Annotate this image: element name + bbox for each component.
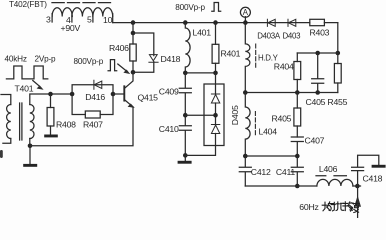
svg-text:Q415: Q415 [138, 92, 159, 102]
svg-text:C407: C407 [305, 136, 325, 146]
T402 pin 5 [92, 14, 94, 23]
wire: loop to Q415 base [113, 93, 124, 95]
resistor R404 [296, 53, 298, 62]
svg-text:R407: R407 [83, 119, 103, 129]
node A (circled) [240, 7, 250, 17]
svg-text:+90V: +90V [61, 23, 81, 33]
capacitor C409 [179, 73, 191, 115]
resistor R403 [310, 19, 325, 25]
svg-text:R403: R403 [310, 28, 330, 38]
resistor R401 [215, 23, 217, 45]
node: junction on rail A above R406 [131, 20, 136, 25]
svg-text:10: 10 [103, 15, 113, 25]
svg-text:R406: R406 [109, 43, 129, 53]
wire: T401 secondary bottom lead [29, 139, 31, 146]
svg-text:D403A: D403A [257, 31, 281, 40]
wire: R403 to rail B corner [337, 23, 339, 53]
diode D403 [288, 19, 296, 26]
transformer T402 core [52, 2, 111, 4]
scan mark (left edge) [0, 150, 3, 158]
ground (R408) [44, 135, 58, 138]
wire: T401 primary bottom lead [3, 139, 11, 144]
winding H.D.Y [245, 23, 250, 93]
wire: rail E [245, 185, 360, 187]
capacitor C412 [239, 156, 251, 186]
capacitor C411 [291, 156, 303, 186]
T402 pin 4 [71, 14, 73, 23]
chassis ground (C418) [372, 165, 386, 168]
node: C409/C410 midpoint [183, 113, 188, 118]
node: D416 loop right [111, 92, 116, 97]
wire: rail C [245, 92, 337, 94]
node: rail A / node A junction [243, 20, 248, 25]
capacitor C418 [352, 155, 379, 186]
diode block D405 internal chain [215, 73, 217, 94]
svg-text:L404: L404 [259, 126, 278, 136]
svg-text:800Vp-p: 800Vp-p [175, 3, 205, 12]
node: R401 bottom [213, 71, 218, 76]
transformer T401 secondary winding [30, 105, 34, 139]
wire: emitter to T401 return [30, 107, 133, 146]
node: rail C / HDY+L404 [243, 90, 248, 95]
svg-text:T401: T401 [15, 84, 34, 94]
node: rail E / C418 [355, 184, 360, 189]
resistor R455 [337, 53, 339, 64]
inductor L406 [317, 179, 353, 186]
node: R406/D418 tee [131, 31, 136, 36]
ground (C410) [184, 155, 186, 160]
svg-text:L406: L406 [319, 164, 338, 174]
svg-text:2Vp-p: 2Vp-p [35, 55, 56, 64]
svg-text:D418: D418 [161, 54, 181, 64]
wire: L401/R401 bottom tie [185, 72, 215, 74]
svg-text:R401: R401 [221, 48, 241, 58]
svg-text:D416: D416 [85, 92, 105, 102]
node: L401 bottom [183, 71, 188, 76]
node: rail C / R404+R405 [295, 90, 300, 95]
resistor R406 [132, 33, 134, 44]
node: base wire / R408 tee [48, 92, 53, 97]
transformer T401 primary winding [7, 105, 11, 139]
wire: top rail A [113, 22, 338, 24]
label (Chinese) field parabola wave [322, 202, 359, 213]
svg-text:L401: L401 [193, 27, 212, 37]
wire: T401 secondary top lead [30, 94, 72, 105]
node: rail A / R401 [213, 20, 218, 25]
waveform pulse symbol [108, 60, 117, 71]
annotation arrow to T401 [33, 81, 39, 86]
svg-text:D405: D405 [230, 105, 240, 125]
node: rail D / L404+C412 [243, 154, 248, 159]
svg-text:C411: C411 [276, 167, 296, 177]
svg-text:5: 5 [87, 15, 92, 25]
node: R406 bottom / collector [131, 70, 136, 75]
svg-text:R405: R405 [272, 113, 292, 123]
H.D.Y core (dashed) [255, 44, 257, 68]
diode D418 [149, 55, 158, 63]
transistor Q415 [123, 86, 125, 100]
wire: T401 primary top lead [1, 95, 11, 105]
wire: tee to D418 top [133, 33, 154, 56]
node: secondary bottom junction [28, 144, 33, 149]
node: rail D / C407+C411 [295, 154, 300, 159]
node: D416 loop left [70, 92, 75, 97]
L406 core (dashed) [316, 175, 346, 177]
waveform pulse symbol [212, 3, 221, 12]
T402 pin 10 [112, 14, 114, 23]
svg-text:C410: C410 [159, 124, 179, 134]
diode D403A [267, 19, 275, 26]
wire: rail A to R406/D418 tee [132, 23, 134, 33]
signal arrow (60Hz input) [357, 186, 359, 218]
diode block D405 box [204, 84, 224, 146]
svg-text:T402(FBT): T402(FBT) [9, 0, 47, 9]
node: D405 chain midpoint [213, 113, 218, 118]
svg-text:A: A [243, 8, 249, 17]
T402 pin 3 [51, 14, 53, 23]
wire: D405 bottom return [185, 146, 215, 156]
inductor L401 [185, 23, 190, 73]
node: rail E / C411 [295, 184, 300, 189]
svg-text:R408: R408 [56, 119, 76, 129]
svg-text:C405 R455: C405 R455 [306, 97, 348, 107]
wire: rail D [245, 155, 297, 157]
diode D416 [94, 80, 102, 89]
capacitor C407 [291, 137, 303, 156]
node: rail B / R455 [336, 51, 341, 56]
capacitor C405 [315, 51, 320, 56]
waveform square wave [6, 66, 47, 79]
capacitor C410 [179, 115, 191, 155]
node: rail C / C405 [315, 90, 320, 95]
svg-text:800Vp-p: 800Vp-p [74, 57, 104, 66]
node: C410 bottom [183, 153, 188, 158]
svg-text:C409: C409 [159, 86, 179, 96]
svg-text:C418: C418 [363, 174, 383, 184]
transformer T401 core [20, 103, 22, 140]
resistor R407 [85, 111, 100, 118]
inductor L404 [245, 93, 250, 157]
svg-text:R404: R404 [274, 61, 294, 71]
wire: rail B [297, 52, 338, 54]
svg-text:3: 3 [46, 15, 51, 25]
node: rail A / L401 [183, 20, 188, 25]
L404 core (dashed) [254, 112, 256, 137]
ground (T401) [29, 146, 31, 164]
wire: midpoint to D405 chain [185, 114, 215, 116]
annotation arrow to collector [118, 64, 126, 71]
transformer T402 winding [52, 8, 113, 17]
svg-text:40kHz: 40kHz [5, 55, 27, 64]
svg-text:C412: C412 [251, 167, 271, 177]
wire: D416/R407 parallel loop frame [72, 85, 113, 115]
svg-text:60Hz: 60Hz [299, 202, 318, 212]
svg-text:D403: D403 [283, 31, 302, 40]
resistor R408 [50, 94, 52, 108]
resistor R405 [296, 93, 298, 109]
